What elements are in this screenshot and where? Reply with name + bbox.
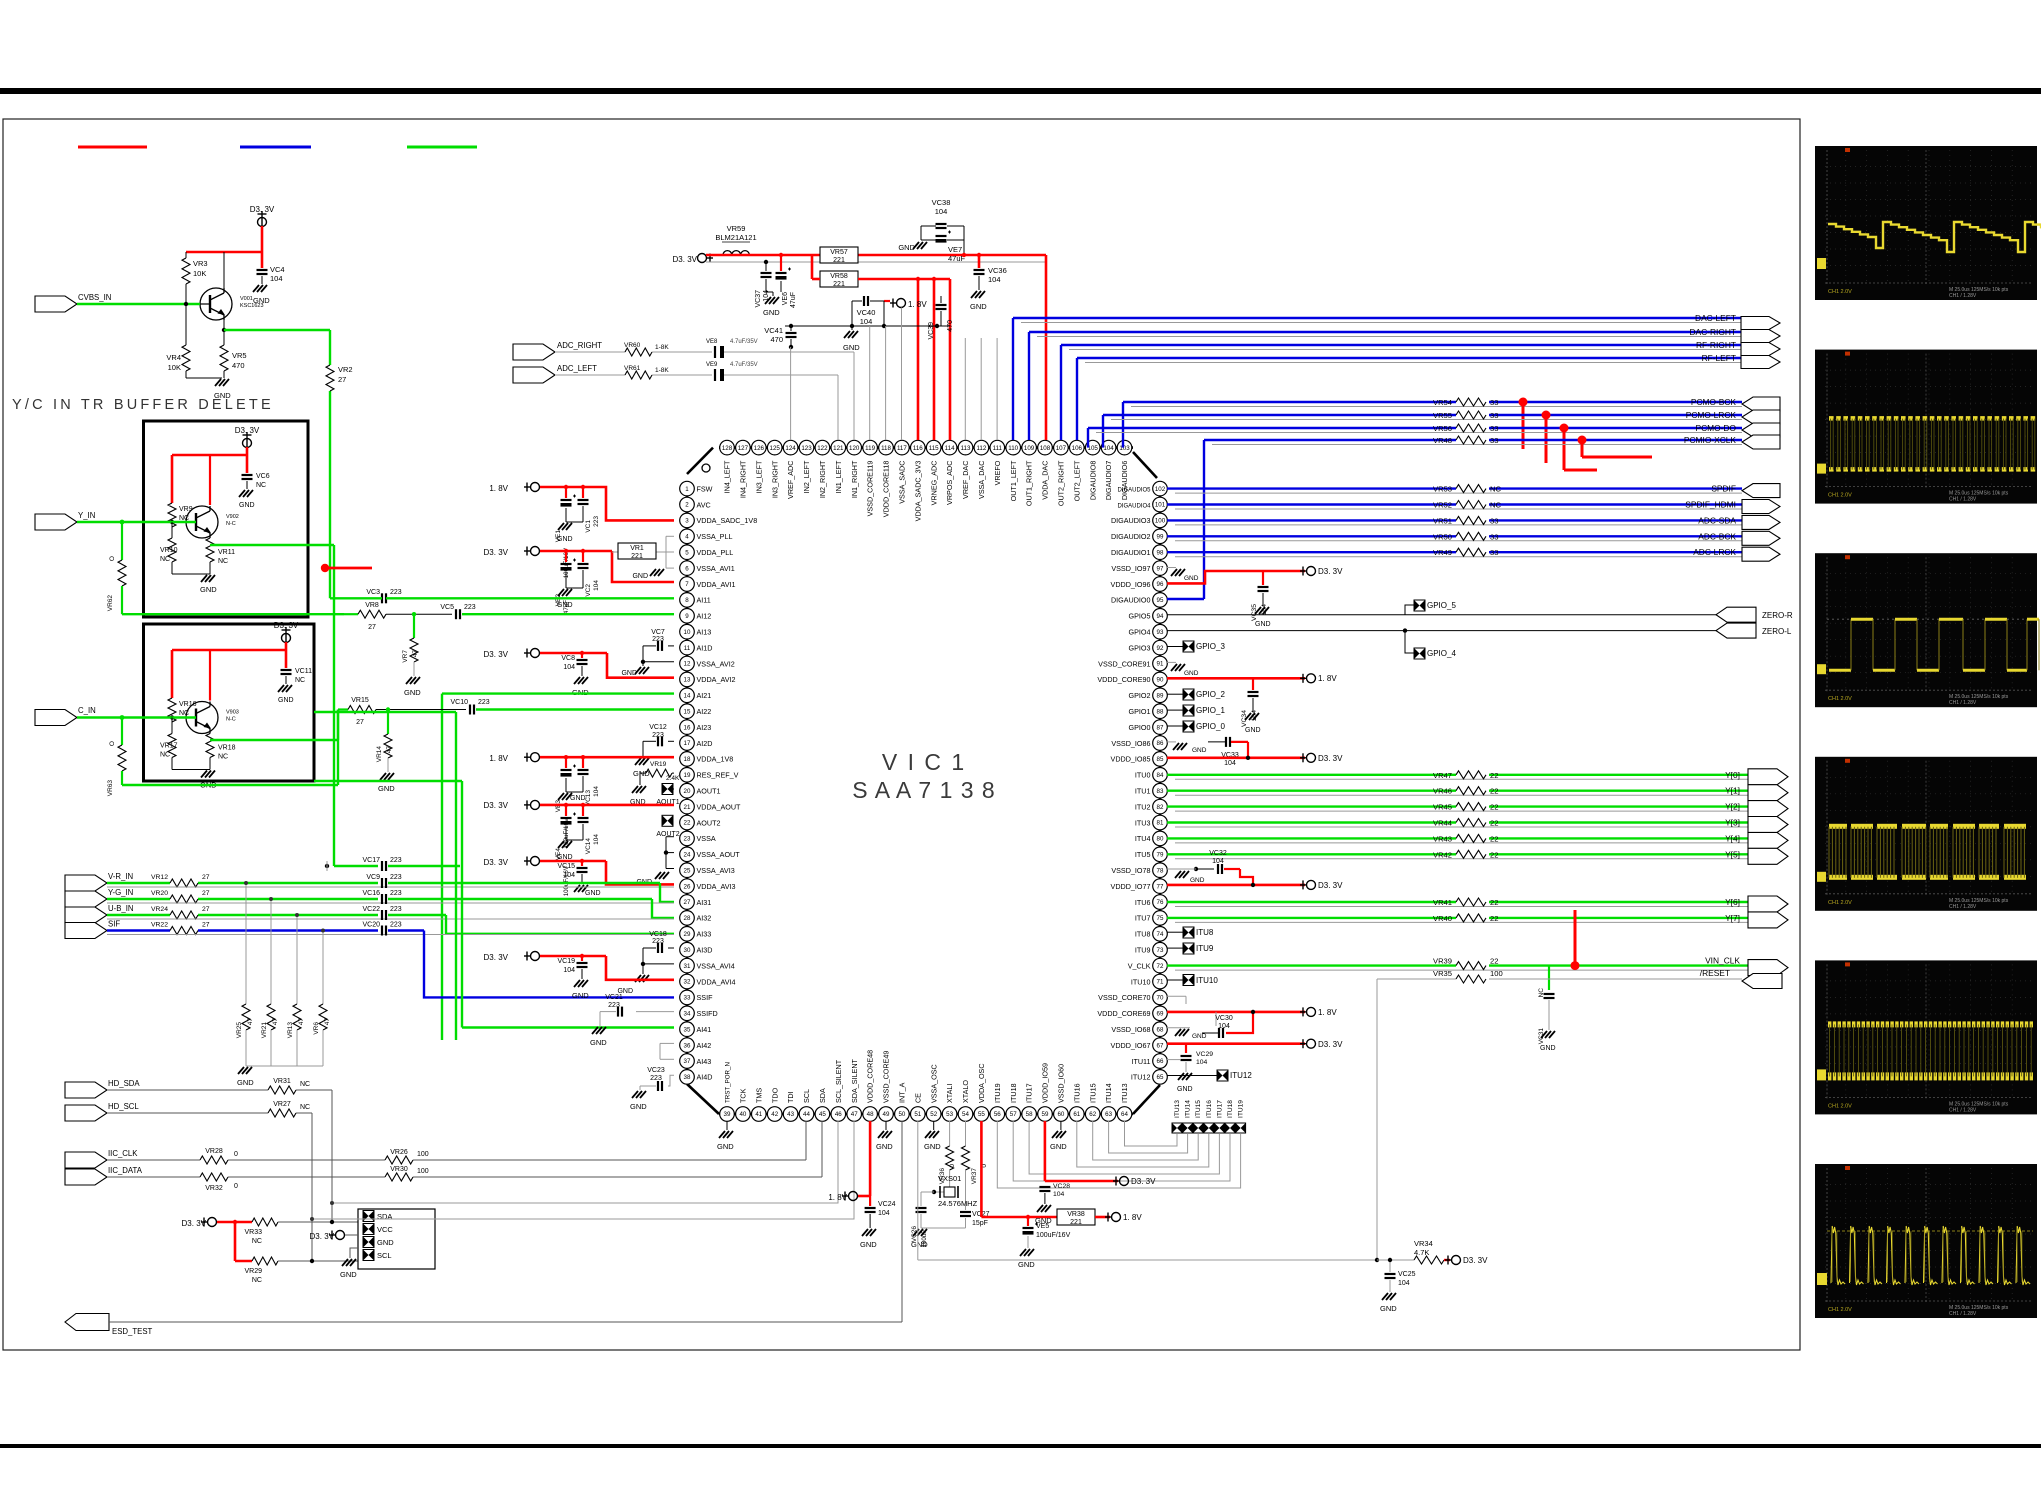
svg-text:VSSD_CORE49: VSSD_CORE49 xyxy=(882,1051,891,1103)
svg-text:104: 104 xyxy=(1196,1059,1208,1066)
svg-text:48: 48 xyxy=(867,1111,874,1118)
svg-text:SDA: SDA xyxy=(377,1212,392,1221)
wire VIN_CLK green xyxy=(1167,966,1748,971)
capacitor VC23 223 xyxy=(640,1067,674,1091)
svg-text:VC3: VC3 xyxy=(366,589,380,596)
node ITU11 wire xyxy=(1167,1059,1180,1061)
svg-text:VR12: VR12 xyxy=(151,874,168,881)
svg-text:ITU10: ITU10 xyxy=(1131,977,1151,986)
svg-text:1-8K: 1-8K xyxy=(655,344,669,351)
svg-text:DIGAUDIO6: DIGAUDIO6 xyxy=(1120,461,1129,501)
svg-text:OUT1_LEFT: OUT1_LEFT xyxy=(1009,460,1018,501)
power symbol D3.3V (pin21) xyxy=(484,800,540,810)
resistor VR19 2.4K xyxy=(640,761,680,785)
capacitor VE9 4.7uF/35V xyxy=(706,362,758,381)
svg-text:NC: NC xyxy=(1490,501,1501,510)
power symbol D3.3V (pin77) xyxy=(1300,880,1343,890)
wire ZERO-R xyxy=(1167,614,1716,616)
svg-text:87: 87 xyxy=(1157,724,1164,731)
resistor VR51 33 xyxy=(1433,516,1498,525)
power symbol D3.3V (top filter) xyxy=(673,254,713,265)
capacitor VC11 NC xyxy=(281,668,313,684)
svg-text:67: 67 xyxy=(1157,1042,1164,1049)
wire pins4-6 gnd xyxy=(632,536,674,580)
legend blue wire sample xyxy=(240,146,311,149)
wire red pin67 D3.3V xyxy=(1167,1042,1305,1045)
svg-text:VDDA_AVI1: VDDA_AVI1 xyxy=(697,580,736,589)
capacitor VC33 104 xyxy=(1208,737,1248,767)
svg-text:1. 8V: 1. 8V xyxy=(908,300,927,309)
svg-text:GND: GND xyxy=(377,1238,394,1247)
svg-text:0: 0 xyxy=(234,1151,238,1158)
svg-text:223: 223 xyxy=(390,857,402,864)
resistor VR47 22 xyxy=(1433,771,1498,780)
svg-text:5: 5 xyxy=(685,549,689,556)
svg-text:U-B_IN: U-B_IN xyxy=(108,904,134,913)
svg-text:104: 104 xyxy=(860,317,873,326)
svg-text:NC: NC xyxy=(300,1081,310,1088)
svg-text:ITU18: ITU18 xyxy=(1227,1100,1234,1118)
capacitor VE5 100uF/16V xyxy=(1023,1215,1071,1248)
net label PCMO-DO xyxy=(1696,423,1737,433)
svg-text:VDDA_OSC: VDDA_OSC xyxy=(977,1063,986,1103)
svg-text:VR11: VR11 xyxy=(218,549,235,556)
svg-text:VSSA_AVI2: VSSA_AVI2 xyxy=(697,659,735,668)
svg-text:6: 6 xyxy=(685,565,689,572)
svg-text:221: 221 xyxy=(833,257,845,264)
wire red VC36 branch xyxy=(977,253,981,268)
svg-text:VDDD_CORE90: VDDD_CORE90 xyxy=(1097,675,1150,684)
input arrow V-R_IN xyxy=(65,872,133,891)
resistor VR28 0 xyxy=(200,1148,238,1164)
svg-text:1. 8V: 1. 8V xyxy=(1318,674,1337,683)
svg-text:ITU8: ITU8 xyxy=(1196,928,1214,937)
capacitor VC8 104 xyxy=(561,651,587,676)
svg-text:VC30: VC30 xyxy=(1215,1015,1233,1022)
svg-text:62: 62 xyxy=(1089,1111,1096,1118)
svg-text:121: 121 xyxy=(833,445,844,452)
svg-text:33: 33 xyxy=(1490,424,1498,433)
svg-text:GND: GND xyxy=(1184,670,1199,677)
net label /RESET xyxy=(1700,968,1730,978)
svg-text:VR41: VR41 xyxy=(1433,898,1452,907)
resistor VR24 27 xyxy=(151,906,210,919)
svg-text:104: 104 xyxy=(878,1210,890,1217)
svg-text:GPIO1: GPIO1 xyxy=(1129,707,1151,716)
svg-text:18: 18 xyxy=(684,756,691,763)
svg-text:ITU16: ITU16 xyxy=(1072,1083,1081,1103)
svg-text:VR60: VR60 xyxy=(624,342,641,349)
svg-text:12: 12 xyxy=(684,661,691,668)
output arrow ZERO-L xyxy=(1716,623,1792,638)
capacitor VC41 470 xyxy=(764,324,796,349)
capacitor VE2 47uF xyxy=(555,549,576,614)
svg-text:D3. 3V: D3. 3V xyxy=(310,1232,335,1241)
svg-text:VDDA_SADC_1V8: VDDA_SADC_1V8 xyxy=(697,516,758,525)
IC refdes text VIC1 xyxy=(882,749,966,775)
svg-text:Y[1]: Y[1] xyxy=(1725,786,1740,796)
output arrow RF-RIGHT xyxy=(1741,343,1780,356)
svg-text:20: 20 xyxy=(684,788,691,795)
svg-text:ITU10: ITU10 xyxy=(1196,976,1218,985)
svg-text:VR52: VR52 xyxy=(1433,501,1452,510)
svg-text:IN3_RIGHT: IN3_RIGHT xyxy=(770,460,779,498)
svg-text:VE9: VE9 xyxy=(706,362,718,368)
svg-text:VR42: VR42 xyxy=(1433,850,1452,859)
svg-text:VR13: VR13 xyxy=(287,1022,294,1039)
output arrow Y[7] xyxy=(1748,912,1788,928)
svg-text:AOUT2: AOUT2 xyxy=(697,818,721,827)
svg-text:NC: NC xyxy=(256,482,266,489)
svg-text:S A A 7 1 3 8: S A A 7 1 3 8 xyxy=(852,777,995,803)
svg-text:GND: GND xyxy=(876,1142,893,1151)
svg-text:27: 27 xyxy=(368,624,376,631)
capacitor VC31 NC xyxy=(1538,966,1555,1045)
svg-text:ADC-LRCK: ADC-LRCK xyxy=(1693,547,1736,557)
svg-text:47: 47 xyxy=(324,1018,331,1026)
ground (I2C header) xyxy=(340,1259,357,1279)
node GPIO_0 xyxy=(1167,721,1225,732)
svg-text:83: 83 xyxy=(1157,788,1164,795)
svg-text:33: 33 xyxy=(1490,516,1498,525)
svg-text:91: 91 xyxy=(1157,661,1164,668)
svg-text:CE: CE xyxy=(913,1093,922,1103)
wire red pin48 xyxy=(858,1121,870,1196)
svg-text:39: 39 xyxy=(724,1111,731,1118)
svg-text:221: 221 xyxy=(1070,1219,1082,1226)
svg-text:VR20: VR20 xyxy=(151,890,168,897)
svg-text:VREFO: VREFO xyxy=(993,460,1002,485)
svg-text:VC32: VC32 xyxy=(1209,850,1227,857)
svg-text:10: 10 xyxy=(684,629,691,636)
net label SPDIF xyxy=(1711,484,1736,494)
svg-text:GPIO3: GPIO3 xyxy=(1129,643,1151,652)
svg-text:Y/C IN TR BUFFER DELETE: Y/C IN TR BUFFER DELETE xyxy=(12,397,274,413)
node GPIO_2 xyxy=(1167,689,1225,700)
ground (pin78) xyxy=(1175,871,1205,884)
svg-text:VR29: VR29 xyxy=(244,1268,262,1275)
svg-text:AI23: AI23 xyxy=(697,723,712,732)
svg-text:33: 33 xyxy=(1490,398,1498,407)
svg-text:223: 223 xyxy=(652,636,664,643)
resistor VR16 NC xyxy=(168,698,197,722)
resistor VR20 27 xyxy=(151,890,210,903)
svg-text:GPIO_4: GPIO_4 xyxy=(1427,649,1456,658)
svg-text:VSSA_AVI1: VSSA_AVI1 xyxy=(697,564,735,573)
svg-text:33: 33 xyxy=(1490,411,1498,420)
svg-text:104: 104 xyxy=(563,872,575,879)
ground (pin60) xyxy=(1050,1121,1067,1151)
svg-text:VR38: VR38 xyxy=(1067,1211,1085,1218)
svg-text:IN4_LEFT: IN4_LEFT xyxy=(723,460,732,493)
wire gnd pin xyxy=(350,1248,358,1258)
svg-text:46: 46 xyxy=(835,1111,842,1118)
svg-text:47uF: 47uF xyxy=(790,292,797,308)
oscilloscope capture 5 (pixel clock) xyxy=(1815,960,2037,1114)
svg-text:95: 95 xyxy=(1157,597,1164,604)
svg-text:GPIO_0: GPIO_0 xyxy=(1196,722,1225,731)
svg-text:ITU4: ITU4 xyxy=(1135,834,1151,843)
svg-text:33: 33 xyxy=(1490,532,1498,541)
svg-text:104: 104 xyxy=(1224,760,1236,767)
wire red pin116 drop xyxy=(917,279,920,440)
svg-text:110: 110 xyxy=(1008,445,1018,452)
IC pin circles 1-128 xyxy=(680,440,1168,1121)
svg-text:34: 34 xyxy=(684,1011,691,1018)
svg-text:63: 63 xyxy=(1105,1111,1112,1118)
svg-text:104: 104 xyxy=(270,274,283,283)
svg-text:V_CLK: V_CLK xyxy=(1128,961,1151,970)
net label PCMO-LRCK xyxy=(1686,410,1737,420)
resistor VR54 33 xyxy=(1433,398,1498,407)
power symbol 1.8V (adc ref) xyxy=(884,299,927,310)
svg-text:VR28: VR28 xyxy=(205,1148,223,1155)
output arrow PCMO-DO xyxy=(1742,423,1780,437)
svg-text:47: 47 xyxy=(412,650,419,658)
power symbol D3.3V (pin13) xyxy=(484,649,540,660)
svg-text:TCK: TCK xyxy=(739,1088,748,1103)
svg-text:GND: GND xyxy=(1540,1045,1556,1052)
svg-text:45: 45 xyxy=(819,1111,826,1118)
resistor VR15 27 xyxy=(338,697,466,726)
svg-text:VR54: VR54 xyxy=(1433,398,1452,407)
svg-text:Y[0]: Y[0] xyxy=(1725,770,1740,780)
net label SPDIF_HDMI xyxy=(1685,500,1736,510)
resistors VR25 VR21 VR13 VR6 47ohm shunts xyxy=(236,881,331,1087)
svg-text:VSSD_IO60: VSSD_IO60 xyxy=(1057,1064,1066,1103)
svg-text:27: 27 xyxy=(202,890,210,897)
svg-text:109: 109 xyxy=(1024,445,1035,452)
svg-text:GND: GND xyxy=(632,573,648,580)
svg-text:41: 41 xyxy=(755,1111,762,1118)
svg-text:NC: NC xyxy=(160,556,170,563)
svg-text:DIGAUDIO0: DIGAUDIO0 xyxy=(1111,596,1151,605)
red stub node PCMO-BCK xyxy=(1519,398,1528,450)
resistor VR2 27 xyxy=(326,365,353,391)
svg-text:CH1 2.0V: CH1 2.0V xyxy=(1828,900,1852,906)
svg-text:VDDD_IO77: VDDD_IO77 xyxy=(1111,882,1151,891)
svg-text:GPIO4: GPIO4 xyxy=(1129,628,1151,637)
svg-text:104: 104 xyxy=(1103,445,1114,452)
svg-text:VC14: VC14 xyxy=(585,838,592,855)
svg-text:VR27: VR27 xyxy=(273,1101,291,1108)
svg-text:VR51: VR51 xyxy=(1433,516,1452,525)
wire Y[5] green xyxy=(1167,854,1748,859)
wire green VR14 branch xyxy=(386,707,390,734)
svg-text:73: 73 xyxy=(1157,947,1164,954)
ground (adc ref) xyxy=(843,326,860,352)
svg-text:10K: 10K xyxy=(193,269,206,278)
svg-text:57: 57 xyxy=(1010,1111,1017,1118)
power symbol 1.8V (pin55) xyxy=(1105,1213,1142,1223)
svg-text:38: 38 xyxy=(684,1074,691,1081)
red stub node PCMIO-XCLK xyxy=(1578,436,1653,458)
svg-text:IIC_CLK: IIC_CLK xyxy=(108,1149,138,1158)
svg-text:59: 59 xyxy=(1042,1111,1049,1118)
capacitor VE6 47uF xyxy=(776,253,798,308)
svg-text:223: 223 xyxy=(390,874,402,881)
svg-text:VC11: VC11 xyxy=(295,668,312,675)
resistor VR32 0 xyxy=(200,1173,238,1192)
svg-text:112: 112 xyxy=(976,445,986,452)
ground (pin3 caps) xyxy=(557,522,583,543)
svg-text:ITU13: ITU13 xyxy=(1174,1100,1181,1118)
power symbol D3.3V (VR34) xyxy=(1445,1256,1488,1266)
svg-text:BLM21A121: BLM21A121 xyxy=(715,233,756,242)
svg-text:ITU9: ITU9 xyxy=(1196,944,1214,953)
svg-text:GND: GND xyxy=(590,1038,607,1047)
capacitor VC6 NC xyxy=(242,473,270,489)
svg-text:221: 221 xyxy=(833,281,845,288)
svg-text:GND: GND xyxy=(763,308,780,317)
svg-text:GND: GND xyxy=(1177,1086,1193,1093)
net label Y[4] xyxy=(1725,833,1740,843)
svg-text:124: 124 xyxy=(785,445,796,452)
svg-text:D3. 3V: D3. 3V xyxy=(1318,881,1343,890)
svg-text:7: 7 xyxy=(685,581,689,588)
svg-text:24: 24 xyxy=(684,852,691,859)
svg-text:OUT2_LEFT: OUT2_LEFT xyxy=(1072,460,1081,501)
ground (pin21 caps) xyxy=(557,840,583,861)
wire green CVBS out xyxy=(224,330,330,598)
ground (VC12) xyxy=(633,758,650,778)
svg-text:22: 22 xyxy=(1490,787,1498,796)
svg-text:TDO: TDO xyxy=(770,1087,779,1103)
svg-text:VDDA_AVI4: VDDA_AVI4 xyxy=(697,977,736,986)
svg-text:Y[3]: Y[3] xyxy=(1725,818,1740,828)
svg-text:XTALI: XTALI xyxy=(945,1084,954,1103)
svg-text:O: O xyxy=(109,741,116,746)
svg-text:47: 47 xyxy=(247,1018,254,1026)
svg-text:VC40: VC40 xyxy=(857,308,876,317)
svg-text:125: 125 xyxy=(770,445,781,452)
svg-text:/RESET: /RESET xyxy=(1700,968,1730,978)
svg-text:VR8: VR8 xyxy=(365,602,379,609)
svg-text:VR3: VR3 xyxy=(193,259,208,268)
svg-text:GND: GND xyxy=(200,585,217,594)
svg-text:VDDD_IO59: VDDD_IO59 xyxy=(1041,1063,1050,1103)
wire red pin26 xyxy=(540,861,674,884)
svg-text:ADC_LEFT: ADC_LEFT xyxy=(557,364,597,373)
svg-text:VDDD_CORE118: VDDD_CORE118 xyxy=(882,461,891,518)
capacitor VC9 223 xyxy=(366,874,401,888)
svg-text:CH1 / 1.28V: CH1 / 1.28V xyxy=(1949,904,1977,910)
capacitor VC18 223 xyxy=(641,931,674,966)
ground (VC38) xyxy=(898,226,927,252)
capacitor VC27 15pF xyxy=(921,1206,990,1228)
svg-text:GND: GND xyxy=(237,1078,254,1087)
svg-text:15pF: 15pF xyxy=(972,1220,988,1227)
svg-text:D3. 3V: D3. 3V xyxy=(484,953,509,962)
svg-text:ITU12: ITU12 xyxy=(1230,1071,1252,1080)
svg-text:VR10: VR10 xyxy=(160,547,178,554)
svg-text:CH1 / 1.28V: CH1 / 1.28V xyxy=(1949,700,1977,706)
svg-text:27: 27 xyxy=(684,899,691,906)
svg-text:AI41: AI41 xyxy=(697,1025,712,1034)
svg-text:GND: GND xyxy=(1192,1033,1207,1040)
svg-text:VC31: VC31 xyxy=(1538,1028,1545,1045)
wire SPDIF blue xyxy=(1167,489,1742,494)
svg-text:VSSA_PLL: VSSA_PLL xyxy=(697,532,733,541)
output arrow DAC-RIGHT xyxy=(1741,330,1780,343)
ground (VC25) xyxy=(1380,1293,1397,1313)
box V903 buffer xyxy=(144,624,315,781)
output arrow SPDIF xyxy=(1742,484,1780,498)
svg-text:NC: NC xyxy=(218,558,228,565)
svg-text:ZERO-R: ZERO-R xyxy=(1762,611,1793,620)
input arrow IIC_DATA xyxy=(65,1166,143,1185)
svg-text:PCMO-BCK: PCMO-BCK xyxy=(1691,397,1737,407)
ground (VC23) xyxy=(630,1086,647,1111)
svg-text:70: 70 xyxy=(1157,995,1164,1002)
oscilloscope capture 2 (bit clock) xyxy=(1815,350,2037,504)
svg-text:VREF_DAC: VREF_DAC xyxy=(961,461,970,499)
wire ZERO-L xyxy=(1167,630,1716,632)
capacitor VC39 470 xyxy=(928,296,954,340)
wire RF-LEFT blue xyxy=(1077,353,1742,440)
svg-text:CH1 / 1.28V: CH1 / 1.28V xyxy=(1949,497,1977,503)
svg-text:D3. 3V: D3. 3V xyxy=(1318,1040,1343,1049)
svg-text:ITU17: ITU17 xyxy=(1025,1083,1034,1103)
net label Y[2] xyxy=(1725,802,1740,812)
svg-text:AI3D: AI3D xyxy=(697,946,713,955)
ground (VC36) xyxy=(970,291,987,311)
net label VIN_CLK xyxy=(1705,956,1740,966)
connector pins SDA VCC GND SCL xyxy=(363,1211,394,1261)
svg-text:VE6: VE6 xyxy=(782,292,789,305)
svg-text:65: 65 xyxy=(1157,1074,1164,1081)
svg-text:113: 113 xyxy=(961,445,971,452)
svg-text:8: 8 xyxy=(685,597,689,604)
svg-text:AI31: AI31 xyxy=(697,898,712,907)
wire red pin59 xyxy=(1045,1121,1118,1181)
svg-text:AI21: AI21 xyxy=(697,691,712,700)
svg-text:16: 16 xyxy=(684,724,691,731)
svg-text:89: 89 xyxy=(1157,693,1164,700)
wire IIC_DATA xyxy=(107,1121,822,1177)
ground (VC11) xyxy=(278,676,294,704)
svg-text:61: 61 xyxy=(1073,1111,1080,1118)
svg-text:72: 72 xyxy=(1157,963,1164,970)
svg-text:470: 470 xyxy=(232,361,245,370)
output arrow SPDIF_HDMI xyxy=(1742,500,1780,514)
svg-text:42: 42 xyxy=(771,1111,778,1118)
svg-text:DIGAUDIO2: DIGAUDIO2 xyxy=(1111,532,1151,541)
resistor VR39 22 xyxy=(1433,957,1498,970)
wire green Y bypass xyxy=(122,613,344,615)
svg-text:PCMIO-XCLK: PCMIO-XCLK xyxy=(1684,435,1737,445)
connector I2C header xyxy=(358,1209,435,1269)
svg-text:0: 0 xyxy=(234,1183,238,1190)
resistor VR5 470 xyxy=(220,320,247,378)
power symbol 1.8V (pin69) xyxy=(1300,1007,1337,1017)
svg-text:KSC1623: KSC1623 xyxy=(240,303,264,309)
svg-text:GND: GND xyxy=(860,1240,877,1249)
svg-text:100: 100 xyxy=(1490,969,1503,978)
wire red V903 xyxy=(172,642,286,701)
svg-text:Y[7]: Y[7] xyxy=(1725,913,1740,923)
svg-text:CH1 / 1.28V: CH1 / 1.28V xyxy=(1949,1311,1977,1317)
svg-text:GND: GND xyxy=(1192,747,1207,754)
svg-text:223: 223 xyxy=(390,589,402,596)
svg-text:30: 30 xyxy=(684,947,691,954)
svg-text:VR15: VR15 xyxy=(351,697,369,704)
wire red pin96 D3.3V xyxy=(1167,571,1305,583)
capacitor VC26 100 xyxy=(911,1192,934,1248)
input arrow ADC_RIGHT xyxy=(513,341,602,360)
net label Y[3] xyxy=(1725,818,1740,828)
ground (V903 emitter) xyxy=(172,758,217,790)
